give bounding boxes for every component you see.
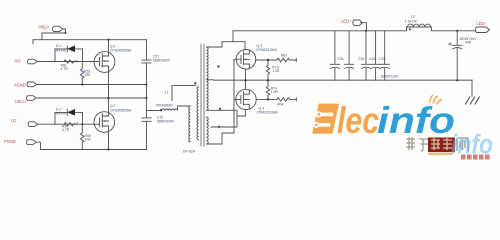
svg-text:HG: HG — [15, 58, 21, 63]
svg-text:lec: lec — [337, 100, 379, 141]
svg-text:68NF/630V: 68NF/630V — [157, 120, 175, 124]
port HG — [28, 59, 37, 64]
wire AGND row — [37, 84, 146, 86]
wire gate chain — [234, 59, 236, 133]
svg-text:R63: R63 — [281, 53, 287, 57]
wire Q4 drain to gnd line — [245, 80, 247, 89]
wire secondary top lead — [207, 42, 246, 50]
svg-text:750343690: 750343690 — [156, 103, 173, 107]
secondary upper dot — [217, 65, 219, 67]
wire D2 right leg — [82, 112, 84, 124]
wire output ground line — [214, 79, 472, 81]
wire Q3 row — [256, 59, 277, 61]
wire primary upper lead — [172, 86, 196, 101]
junction CELL+ Q2 drain — [107, 97, 109, 99]
svg-text:CPM2201SAV: CPM2201SAV — [257, 111, 279, 115]
wire D2 left leg — [54, 112, 56, 124]
svg-text:DP-62A: DP-62A — [183, 150, 196, 154]
wire rail riser — [232, 31, 234, 42]
port LED+ — [353, 20, 363, 25]
resistor R73 — [266, 60, 269, 80]
svg-text:C33: C33 — [379, 57, 385, 61]
capacitor C3x at 349.1 — [345, 31, 354, 80]
resistor R63 — [277, 58, 296, 62]
transistor Q1 — [94, 52, 115, 73]
transformer secondary winding lower — [207, 117, 209, 144]
wire HG gate row — [38, 61, 95, 63]
junction C35 rail — [456, 30, 458, 32]
wire secondary mid lead — [207, 110, 246, 127]
junction CELL+ C21 column — [145, 97, 147, 99]
svg-text:1.10-DP: 1.10-DP — [405, 20, 418, 24]
junction R52 AGND — [81, 83, 83, 85]
svg-text:1.0R: 1.0R — [272, 69, 280, 73]
capacitor C3x at 366 — [361, 31, 370, 80]
capacitor C3x at 384.7 — [380, 31, 389, 80]
port LG — [28, 122, 37, 127]
svg-text:820UF/16V: 820UF/16V — [381, 74, 399, 78]
svg-text:CPM22015AV: CPM22015AV — [256, 48, 278, 52]
wire HB1A jog — [42, 29, 66, 40]
junction Q2 source PGND — [107, 148, 109, 150]
transistor Q3 — [236, 50, 256, 70]
wire Q4 row — [256, 98, 277, 100]
wire LED+ to rail — [361, 23, 367, 31]
svg-text:AGND: AGND — [14, 83, 26, 88]
svg-text:10R: 10R — [85, 138, 92, 142]
logo hand icon — [430, 95, 442, 105]
wire ground drop — [471, 80, 473, 96]
wire secondary bottom lead — [207, 133, 235, 144]
wire output rail — [233, 30, 475, 32]
secondary mid dot — [219, 108, 221, 110]
capacitor C35 — [452, 31, 462, 81]
wire Q2 source pin — [108, 132, 110, 149]
wire Q1 source to Q2 drain — [108, 72, 110, 112]
svg-text:24R: 24R — [465, 41, 472, 45]
svg-text:R64: R64 — [277, 102, 283, 106]
wire LG gate row — [38, 123, 95, 125]
svg-text:4.7R: 4.7R — [62, 128, 70, 132]
svg-text:C31: C31 — [338, 57, 344, 61]
svg-text:10K: 10K — [84, 73, 91, 77]
svg-text:LG: LG — [11, 118, 16, 123]
transformer primary horizontal winding — [146, 106, 189, 111]
svg-text:T.1: T.1 — [164, 90, 169, 94]
resistor R51 (gate) — [64, 60, 74, 63]
wire secondary centre tap — [207, 79, 215, 81]
resistor R55 (pulldown) — [81, 124, 84, 149]
primary node dot — [160, 109, 162, 111]
transformer primary winding inner — [189, 106, 191, 142]
primary upper dot — [194, 82, 196, 84]
capacitor C3x at 334.9 — [330, 31, 339, 80]
junction LG gate node — [81, 123, 83, 125]
port HB1A — [53, 26, 63, 31]
wire PGND row — [36, 142, 146, 149]
wire D1 left leg — [54, 49, 56, 62]
svg-text:4.7R: 4.7R — [61, 67, 69, 71]
svg-text:CELL+: CELL+ — [15, 99, 28, 104]
wire Q1 drain pin — [108, 40, 110, 52]
svg-text:68NF/630V: 68NF/630V — [153, 58, 171, 62]
junction R74 row — [267, 98, 269, 100]
transformer secondary winding upper — [207, 47, 209, 110]
port LED- — [476, 27, 490, 33]
logo subtitle 电子信息网 — [406, 137, 468, 155]
svg-text:1R: 1R — [74, 122, 79, 126]
svg-text:1.0R: 1.0R — [271, 90, 279, 94]
junction R73 R74 gnd line — [267, 79, 269, 81]
capacitor C3x at 375.6 — [371, 31, 380, 80]
junction Q3 source gnd line — [244, 79, 246, 81]
wire Q3 source to gnd line — [245, 69, 247, 80]
svg-text:CA1: CA1 — [369, 57, 376, 61]
junction AGND C21 column — [145, 83, 147, 85]
junction Q1 drain rail — [107, 39, 109, 41]
svg-text:LED-: LED- — [477, 21, 487, 26]
diode D1 — [55, 46, 83, 52]
svg-text:1R: 1R — [74, 59, 79, 63]
capacitor C22 — [142, 111, 151, 150]
ground symbol — [466, 97, 480, 104]
resistor R64 — [277, 98, 296, 102]
diode D2 — [55, 109, 83, 115]
svg-text:LED+: LED+ — [341, 19, 352, 24]
watermark tiny red subtitle — [461, 155, 490, 160]
svg-text:info: info — [377, 100, 455, 141]
wire top rail — [33, 40, 146, 44]
junction HB1A jog — [65, 32, 67, 34]
wire D1 right leg — [82, 49, 84, 62]
svg-text:CPU2R5038A: CPU2R5038A — [110, 49, 132, 53]
wire CELL+ row — [37, 97, 146, 99]
port PGND — [27, 140, 36, 145]
logo Elecinfo watermark — [312, 95, 493, 160]
capacitor C21 — [142, 40, 151, 111]
resistor R74 — [266, 80, 269, 99]
port AGND — [27, 82, 36, 87]
svg-text:CPU2R5038A: CPU2R5038A — [110, 108, 132, 112]
inductor dot — [409, 28, 411, 30]
transformer core — [201, 44, 204, 146]
svg-text:PGND: PGND — [4, 139, 16, 144]
resistor R52 (pulldown) — [81, 62, 84, 85]
transistor Q2 — [94, 112, 115, 133]
svg-text:C34: C34 — [358, 57, 364, 61]
svg-text:HB1A: HB1A — [39, 24, 50, 29]
junction C35 gnd line — [456, 79, 458, 81]
transformer primary winding outer — [197, 87, 199, 140]
port CELL+ — [27, 96, 36, 101]
secondary lower dot — [218, 126, 220, 128]
svg-text:L3: L3 — [411, 15, 415, 19]
junction LED+ rail — [365, 30, 367, 32]
transistor Q4 — [236, 89, 256, 109]
resistor R54 (gate) — [64, 123, 74, 126]
junction R73 row — [267, 59, 269, 61]
